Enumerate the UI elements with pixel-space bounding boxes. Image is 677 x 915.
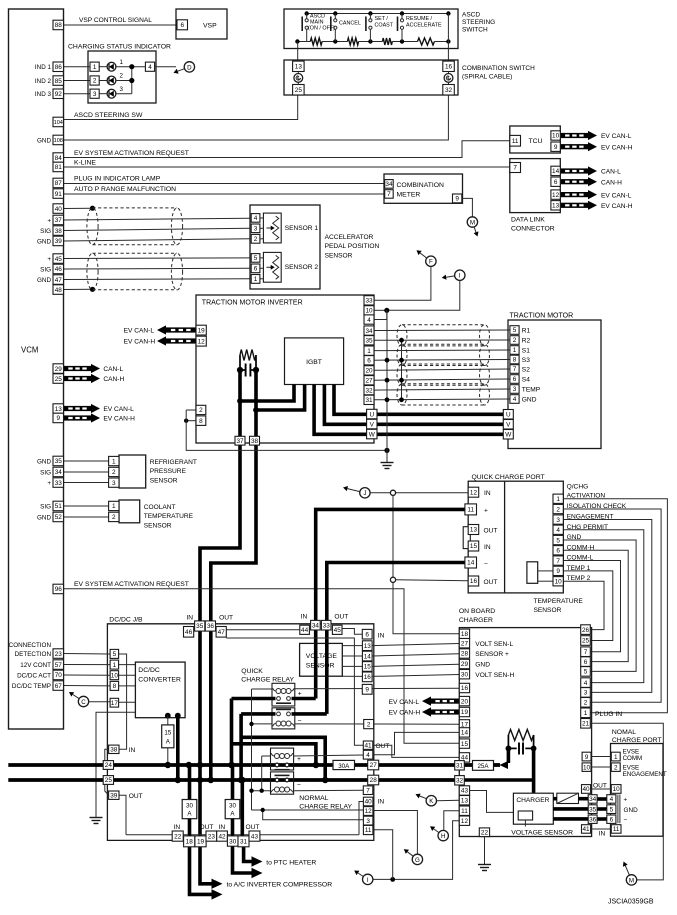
VCM pin 92 bbox=[53, 89, 64, 99]
svg-text:PLUG IN INDICATOR LAMP: PLUG IN INDICATOR LAMP bbox=[74, 176, 161, 183]
svg-text:2: 2 bbox=[112, 469, 116, 476]
svg-text:1: 1 bbox=[614, 754, 618, 761]
shielded cable 1 outline bbox=[87, 208, 98, 245]
svg-text:CAN-L: CAN-L bbox=[601, 169, 621, 176]
svg-text:(SPIRAL CABLE): (SPIRAL CABLE) bbox=[462, 74, 512, 81]
svg-text:+: + bbox=[484, 507, 488, 514]
wire meter 9 to connector M bbox=[462, 198, 473, 216]
svg-text:TEMPERATURE: TEMPERATURE bbox=[534, 598, 584, 605]
svg-text:45: 45 bbox=[55, 256, 63, 263]
J/B output pin 23 bbox=[206, 831, 217, 841]
J/B output pin 31 bbox=[238, 836, 249, 847]
charger pin 34 bbox=[588, 795, 597, 804]
svg-text:104: 104 bbox=[54, 120, 63, 126]
HV bus2 into charger bbox=[464, 778, 533, 782]
svg-text:IND 3: IND 3 bbox=[35, 91, 52, 98]
ASCD bottom bus junction dot bbox=[333, 39, 337, 43]
svg-text:70: 70 bbox=[55, 672, 63, 679]
svg-text:34: 34 bbox=[385, 181, 393, 188]
svg-text:to PTC HEATER: to PTC HEATER bbox=[266, 859, 316, 866]
J/B output pin 42 bbox=[217, 831, 228, 841]
VCM pin 40 bbox=[53, 204, 64, 214]
svg-text:IN: IN bbox=[219, 824, 226, 831]
charger bus pin 31 bbox=[455, 761, 465, 770]
wire VCM 91 to combination meter 7 bbox=[64, 193, 385, 195]
inverter W terminal bbox=[367, 429, 377, 439]
charger GND output wire bbox=[553, 807, 588, 811]
VCM pin 85 bbox=[53, 76, 64, 86]
charger connector pin 21 bbox=[581, 719, 591, 729]
inverter pin 27 bbox=[364, 376, 374, 385]
svg-text:OUT: OUT bbox=[593, 783, 607, 790]
svg-text:9: 9 bbox=[56, 415, 60, 422]
switch CANCEL bbox=[334, 14, 336, 20]
LED 2 symbol bbox=[99, 80, 107, 82]
charger connector pin 1 bbox=[581, 708, 591, 718]
VCM pin 13 bbox=[53, 404, 64, 414]
svg-text:VOLT SEN-L: VOLT SEN-L bbox=[475, 641, 513, 648]
junction dot bbox=[129, 78, 134, 83]
svg-text:46: 46 bbox=[185, 629, 193, 636]
relay 3 coil wire to J/B pin 4 bbox=[294, 755, 364, 756]
svg-text:16: 16 bbox=[364, 674, 372, 681]
quick charge relay 2 box bbox=[272, 708, 295, 729]
svg-text:IN: IN bbox=[378, 632, 385, 639]
relay 4 contacts on bus2 bbox=[275, 774, 290, 776]
svg-text:EV SYSTEM ACTIVATION REQUEST: EV SYSTEM ACTIVATION REQUEST bbox=[74, 581, 189, 588]
svg-text:V: V bbox=[370, 421, 375, 428]
charger pin 41 bbox=[582, 825, 591, 834]
APP sensor pin 6 bbox=[251, 264, 260, 273]
svg-text:34: 34 bbox=[589, 796, 597, 803]
svg-text:VSP CONTROL SIGNAL: VSP CONTROL SIGNAL bbox=[79, 17, 152, 24]
converter ground wire bbox=[96, 712, 135, 817]
IGBT DC- input wire bbox=[256, 385, 305, 411]
svg-text:19: 19 bbox=[198, 327, 206, 334]
coil common to J/B pin 12 bbox=[252, 809, 364, 811]
thick wire charger 34 to port 4 bbox=[597, 797, 607, 801]
twisted pair CAN-L from DLC 14 bbox=[560, 168, 588, 173]
svg-text:6: 6 bbox=[554, 179, 558, 186]
inverter pin 38 bbox=[250, 436, 260, 445]
relay 4 coil wires bbox=[252, 790, 271, 792]
HV- through voltage sensor bbox=[325, 643, 329, 676]
fuse 25A bbox=[464, 763, 472, 767]
svg-text:33: 33 bbox=[55, 480, 63, 487]
svg-text:85: 85 bbox=[55, 78, 63, 85]
VCM pin 67 bbox=[53, 681, 64, 691]
shield drain junction dot bbox=[399, 397, 404, 402]
J/B pin 10 bbox=[110, 671, 119, 680]
svg-text:SIG: SIG bbox=[40, 469, 51, 476]
svg-text:52: 52 bbox=[55, 514, 63, 521]
svg-text:5: 5 bbox=[113, 651, 117, 658]
svg-text:26: 26 bbox=[582, 627, 590, 634]
LED 1 symbol bbox=[99, 66, 107, 68]
svg-text:27: 27 bbox=[370, 762, 378, 769]
VCM pin 104 bbox=[53, 117, 64, 127]
svg-text:11: 11 bbox=[461, 808, 468, 815]
refrigerant pressure sensor body bbox=[119, 455, 146, 488]
svg-text:S2: S2 bbox=[522, 366, 530, 373]
junction dot relay1/fuse2 bbox=[228, 762, 234, 768]
converter - output dot bbox=[175, 713, 181, 719]
wire pin 18 to A/C inverter compressor bbox=[190, 847, 212, 895]
svg-text:30: 30 bbox=[186, 803, 193, 810]
TCU box bbox=[510, 126, 561, 153]
HV+ cable QC port 11 bbox=[316, 509, 465, 698]
charger connector pin 6 bbox=[581, 657, 591, 667]
quick charge port divider bbox=[504, 481, 506, 593]
VCM pin 9 bbox=[53, 413, 64, 423]
connector H bbox=[438, 830, 448, 840]
ASCD bottom bus junction dot bbox=[400, 39, 404, 43]
switch ASCD MAIN bbox=[306, 14, 308, 20]
wire QC port to charger connector bbox=[563, 550, 628, 661]
breaker symbol box bbox=[557, 793, 579, 803]
svg-text:37: 37 bbox=[55, 217, 63, 224]
QC port pin 3 bbox=[553, 515, 563, 524]
svg-text:5: 5 bbox=[584, 669, 588, 676]
ASCD top bus junction dot bbox=[333, 11, 337, 15]
svg-text:3: 3 bbox=[366, 818, 370, 825]
svg-text:48: 48 bbox=[55, 287, 63, 294]
wire VCM 37 to sensor1 pin 4 bbox=[64, 218, 251, 220]
normal charge port box bbox=[611, 744, 664, 837]
QC port pin 9 bbox=[553, 566, 563, 575]
connector M at bottom bbox=[626, 875, 636, 885]
svg-text:84: 84 bbox=[55, 155, 63, 162]
svg-text:IN: IN bbox=[378, 799, 385, 806]
wire VCM 108 GND to spiral cable 32 bbox=[64, 95, 449, 140]
LED1 output wire to pin 4 bbox=[116, 66, 145, 68]
charger pin 40 bbox=[582, 785, 591, 794]
svg-text:EV CAN-L: EV CAN-L bbox=[103, 406, 134, 413]
twisted pair EV CAN-H from VCM 9 bbox=[64, 415, 92, 420]
svg-text:SET /: SET / bbox=[375, 16, 389, 22]
J/B output pin 18 bbox=[184, 836, 195, 847]
wire temp sensor to QC 10 bbox=[538, 580, 553, 582]
charger pin 11 bbox=[459, 806, 469, 815]
J/B pin 11 bbox=[363, 825, 373, 834]
twisted pair EV CAN-H from DLC 13 bbox=[560, 203, 588, 208]
shield ground wire bbox=[186, 410, 387, 450]
svg-text:32: 32 bbox=[365, 387, 373, 394]
svg-text:29: 29 bbox=[461, 661, 469, 668]
ASCD bottom bus wire bbox=[297, 41, 310, 43]
wire QC port to charger connector bbox=[563, 530, 644, 683]
charger + output wire bbox=[553, 797, 557, 801]
svg-text:CONVERTER: CONVERTER bbox=[138, 677, 181, 684]
snubber right leg into charger bbox=[532, 748, 536, 793]
svg-text:REFRIGERANT: REFRIGERANT bbox=[150, 459, 197, 466]
junction dot fuse 30A-1 feed bbox=[186, 762, 192, 768]
J/B pin 17 bbox=[110, 698, 119, 707]
svg-text:12: 12 bbox=[365, 808, 373, 815]
shield drain junction dot bbox=[385, 358, 390, 363]
QC port pin 10 bbox=[553, 577, 563, 586]
svg-text:M: M bbox=[470, 219, 475, 226]
J/B pin 46 bbox=[184, 627, 194, 638]
QC port pin 11 bbox=[465, 504, 477, 515]
wire pin 30 to PTC heater bbox=[233, 846, 252, 873]
svg-text:+: + bbox=[298, 691, 302, 698]
ground symbol at inverter bbox=[381, 462, 394, 464]
svg-text:CHARGER: CHARGER bbox=[516, 797, 549, 804]
svg-text:34: 34 bbox=[312, 622, 320, 629]
svg-text:38: 38 bbox=[251, 438, 259, 445]
charger pin 10 bbox=[582, 763, 591, 772]
wire QC port to charger connector bbox=[563, 509, 661, 702]
svg-text:10: 10 bbox=[111, 672, 119, 679]
svg-text:OUT: OUT bbox=[200, 824, 214, 831]
shield drain junction dot bbox=[399, 378, 404, 383]
wire connector I to inverter 10 and 4 bbox=[387, 280, 460, 310]
inverter pin 2 bbox=[196, 405, 206, 414]
svg-text:34: 34 bbox=[55, 469, 63, 476]
svg-text:CHARGING STATUS INDICATOR: CHARGING STATUS INDICATOR bbox=[68, 43, 171, 50]
wire charger 41 to port 11 bbox=[591, 828, 612, 830]
junction dot bus1 bbox=[228, 762, 234, 768]
wire J/B 41 to charger 44 bbox=[373, 745, 460, 757]
svg-text:SWITCH: SWITCH bbox=[462, 27, 488, 34]
svg-text:3: 3 bbox=[93, 91, 97, 98]
wire VCM 96 to on-board charger 15 bbox=[64, 589, 460, 744]
TCU pin 11 bbox=[510, 135, 521, 146]
LED 3 symbol bbox=[99, 93, 107, 95]
svg-text:41: 41 bbox=[582, 826, 590, 833]
svg-text:ACCELERATOR: ACCELERATOR bbox=[325, 234, 374, 241]
svg-text:VOLT SEN-H: VOLT SEN-H bbox=[475, 672, 514, 679]
svg-text:8: 8 bbox=[513, 357, 517, 364]
fuse 30A second bbox=[225, 800, 240, 819]
junction dot bbox=[390, 877, 395, 882]
svg-text:EV SYSTEM ACTIVATION REQUEST: EV SYSTEM ACTIVATION REQUEST bbox=[74, 150, 189, 157]
svg-text:CONNECTION: CONNECTION bbox=[9, 642, 52, 649]
svg-text:9: 9 bbox=[585, 754, 589, 761]
svg-text:12: 12 bbox=[461, 818, 469, 825]
svg-text:DC/DC ACT: DC/DC ACT bbox=[17, 672, 51, 679]
svg-text:2: 2 bbox=[584, 700, 588, 707]
svg-text:COAST: COAST bbox=[375, 23, 394, 29]
svg-text:6: 6 bbox=[610, 816, 614, 823]
splice open circle bbox=[390, 577, 395, 582]
svg-text:12: 12 bbox=[552, 192, 560, 199]
svg-text:to A/C INVERTER COMPRESSOR: to A/C INVERTER COMPRESSOR bbox=[227, 882, 333, 889]
svg-text:25: 25 bbox=[105, 777, 113, 784]
port pin 10 bbox=[611, 785, 621, 794]
svg-text:R1: R1 bbox=[522, 327, 531, 334]
svg-text:1: 1 bbox=[556, 496, 560, 503]
VCM pin 39 bbox=[53, 236, 64, 246]
svg-text:IN: IN bbox=[301, 614, 308, 621]
svg-text:8: 8 bbox=[199, 418, 203, 425]
resolver wire 31 GND bbox=[374, 398, 510, 401]
J/B pin 44 bbox=[300, 625, 310, 634]
twisted pair EV CAN-L from VCM 13 bbox=[64, 406, 92, 411]
resistor in SET/COAST branch bbox=[382, 38, 392, 45]
relay1 coil wire to J/B pin 9 and charger 16 bbox=[295, 687, 460, 690]
inverter pin 37 bbox=[235, 436, 245, 445]
svg-text:5: 5 bbox=[254, 255, 258, 262]
svg-text:VOLTAGE SENSOR: VOLTAGE SENSOR bbox=[511, 829, 573, 836]
wire charger 40 to port 10 bbox=[591, 788, 612, 790]
inverter pin 34 bbox=[364, 326, 374, 335]
VCM pin 38 bbox=[53, 226, 64, 236]
VCM pin 46 bbox=[53, 264, 64, 274]
svg-text:3: 3 bbox=[112, 480, 116, 487]
svg-text:88: 88 bbox=[55, 22, 63, 29]
svg-text:5: 5 bbox=[610, 806, 614, 813]
svg-text:OUT: OUT bbox=[484, 527, 498, 534]
wire QC port to charger connector bbox=[563, 561, 620, 652]
svg-text:EV CAN-H: EV CAN-H bbox=[124, 339, 156, 346]
wire QC port to charger connector bbox=[563, 540, 636, 671]
svg-text:GND: GND bbox=[37, 137, 51, 144]
svg-text:GND: GND bbox=[475, 662, 490, 669]
svg-text:2: 2 bbox=[254, 236, 258, 243]
svg-text:81: 81 bbox=[55, 164, 63, 171]
DLC pin 14 bbox=[551, 166, 560, 175]
voltage sensor output wires bbox=[342, 645, 362, 647]
svg-text:DATA LINK: DATA LINK bbox=[511, 217, 545, 224]
VCM pin 34 bbox=[53, 467, 64, 477]
svg-text:JSCIA0359GB: JSCIA0359GB bbox=[608, 899, 654, 906]
VCM pin 70 bbox=[53, 670, 64, 680]
port pin 5 bbox=[607, 805, 616, 814]
svg-text:GND: GND bbox=[37, 514, 51, 521]
ASCD top bus junction dot bbox=[400, 11, 404, 15]
svg-text:SIG: SIG bbox=[40, 503, 51, 510]
wire VCM 86 to indicator pin 1 bbox=[64, 66, 91, 68]
shielded cable outline bbox=[397, 325, 407, 346]
inverter pin 12 bbox=[196, 336, 206, 346]
svg-text:TEMP: TEMP bbox=[522, 386, 541, 393]
svg-text:33: 33 bbox=[365, 298, 373, 305]
charger connector pin 25 bbox=[581, 636, 591, 646]
J/B bus pin 28 bbox=[368, 775, 379, 785]
svg-text:17: 17 bbox=[111, 700, 119, 707]
svg-text:OUT: OUT bbox=[334, 614, 348, 621]
svg-text:H: H bbox=[441, 833, 445, 840]
twisted pair EV CAN-L from DLC 12 bbox=[560, 192, 588, 197]
shield drain junction dot bbox=[385, 378, 390, 383]
J/B pin 40 bbox=[363, 797, 373, 806]
traction motor pin 2 R2 bbox=[510, 336, 519, 345]
svg-text:6: 6 bbox=[513, 376, 517, 383]
DLC pin 12 bbox=[551, 190, 560, 199]
svg-text:11: 11 bbox=[512, 138, 519, 145]
twisted pair EV CAN-H to charger 19 bbox=[431, 709, 459, 714]
HV+ wire from capacitor node through inverter pin 37 bbox=[200, 370, 240, 836]
svg-text:IND 2: IND 2 bbox=[35, 78, 52, 85]
coil2 wire bbox=[252, 723, 273, 725]
traction motor W terminal bbox=[503, 430, 513, 440]
J/B output pin 43 bbox=[249, 831, 260, 841]
svg-text:−: − bbox=[298, 717, 302, 724]
svg-text:OUT: OUT bbox=[246, 824, 260, 831]
wire VCM 52 to coolant sensor 2 bbox=[64, 516, 109, 518]
charger voltage sensor element bbox=[518, 811, 532, 820]
QC port pin 4 bbox=[553, 525, 563, 534]
wire temp sensor to QC 9 bbox=[538, 570, 553, 572]
J/B output pin 19 bbox=[195, 836, 206, 847]
svg-text:13: 13 bbox=[461, 797, 469, 804]
svg-text:IN: IN bbox=[129, 747, 136, 754]
charger pin 13 bbox=[459, 796, 469, 805]
junction dot bbox=[129, 64, 134, 69]
charger pin 35 bbox=[588, 805, 597, 814]
wire VCM 85 to indicator pin 2 bbox=[64, 80, 91, 82]
VCM pin 88 bbox=[53, 20, 64, 30]
wire J/B 39 to pin 22 bbox=[119, 795, 126, 835]
svg-text:4: 4 bbox=[610, 796, 614, 803]
wire inverter 8 resolver shield bbox=[186, 420, 196, 422]
wire splice to charger pin 18 bbox=[393, 495, 459, 633]
potentiometer symbol sensor 1 bbox=[263, 213, 281, 243]
svg-text:ASCD: ASCD bbox=[462, 12, 480, 19]
wire VCM 45 to sensor2 pin 5 bbox=[64, 257, 251, 260]
wire J/B 40 to OUT bus bbox=[359, 802, 363, 835]
svg-text:DC/DC: DC/DC bbox=[138, 667, 160, 674]
svg-text:14: 14 bbox=[461, 730, 469, 737]
LED3 output wire bbox=[116, 93, 132, 95]
svg-text:41: 41 bbox=[364, 742, 372, 749]
VCM pin 91 bbox=[53, 189, 64, 199]
J/B pin 38 bbox=[109, 745, 119, 753]
svg-text:45: 45 bbox=[334, 627, 342, 634]
svg-text:30: 30 bbox=[229, 803, 236, 810]
svg-text:96: 96 bbox=[55, 586, 63, 593]
svg-text:2: 2 bbox=[112, 514, 116, 521]
svg-text:23: 23 bbox=[55, 651, 63, 658]
wire QC port to charger connector bbox=[563, 581, 604, 629]
svg-text:24: 24 bbox=[105, 762, 113, 769]
svg-text:38: 38 bbox=[110, 747, 118, 754]
svg-text:SIG: SIG bbox=[40, 228, 51, 235]
svg-text:OUT: OUT bbox=[219, 614, 233, 621]
relay 4 coil bbox=[274, 787, 279, 792]
relay 2 contacts bbox=[276, 708, 291, 710]
svg-text:S4: S4 bbox=[522, 376, 530, 383]
svg-text:VSP: VSP bbox=[203, 23, 217, 30]
svg-text:5: 5 bbox=[556, 537, 560, 544]
wire VCM 38 to sensor1 pin 3 bbox=[64, 228, 251, 230]
VSP box bbox=[176, 9, 227, 39]
QC port internal fuse wire 13 to 15 bbox=[467, 530, 469, 547]
svg-text:38: 38 bbox=[55, 228, 63, 235]
svg-text:13: 13 bbox=[55, 406, 63, 413]
relay 1 wire to HV bus 1 bbox=[230, 699, 234, 766]
wire J/B 12 to connector G bbox=[373, 811, 418, 855]
svg-text:W: W bbox=[369, 431, 376, 438]
traction motor box bbox=[508, 320, 601, 449]
svg-text:AUTO P RANGE MALFUNCTION: AUTO P RANGE MALFUNCTION bbox=[74, 186, 176, 193]
VCM ECU box bbox=[9, 9, 64, 729]
inverter U terminal bbox=[367, 409, 377, 419]
shield drain junction dot bbox=[90, 287, 95, 292]
ASCD bottom bus junction dot bbox=[368, 39, 372, 43]
svg-text:5: 5 bbox=[513, 327, 517, 334]
J/B pin 9 bbox=[362, 684, 372, 694]
svg-text:EV CAN-H: EV CAN-H bbox=[389, 710, 421, 717]
svg-text:K-LINE: K-LINE bbox=[74, 160, 96, 167]
J/B pin 33 bbox=[321, 620, 331, 630]
inverter V terminal bbox=[367, 419, 377, 429]
twisted pair CAN-L from VCM 29 bbox=[64, 366, 92, 371]
wire connector K to charger 13 bbox=[437, 799, 460, 802]
svg-text:R2: R2 bbox=[522, 337, 531, 344]
